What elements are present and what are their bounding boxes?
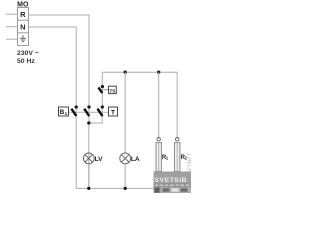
switch pole 1 blade — [71, 109, 76, 116]
mains connector MO box — [18, 8, 29, 46]
wire R line to vertical v2 — [29, 15, 90, 188]
node dot LV at bus — [87, 187, 90, 190]
switch pole 1 contact dot — [75, 105, 78, 108]
node dot R1 feed — [157, 71, 160, 74]
earth symbol in MO box — [20, 35, 26, 41]
heater feed wire — [102, 72, 177, 137]
switch pole 2 blade — [84, 109, 89, 116]
box T — [109, 107, 118, 116]
heater R1 terminal — [157, 138, 160, 141]
wire N line to vertical v1 — [29, 27, 77, 188]
thermostat switch TS blade — [98, 87, 102, 93]
node dot LA at bus — [124, 187, 127, 190]
switch pole 3 blade — [98, 109, 103, 116]
watermark logo box — [154, 172, 192, 194]
wire LV lamp to bus — [88, 164, 90, 189]
wire v3 vertical with junction bend to v2 — [89, 72, 103, 123]
mechanical link line B1 bank — [69, 111, 109, 113]
lamp LV — [83, 153, 94, 164]
heater R2 terminal — [176, 138, 179, 141]
bottom bus wire — [76, 187, 177, 189]
svg-text:SVETSIB: SVETSIB — [155, 177, 188, 184]
thermostat switch TS contact dot — [101, 85, 104, 88]
box B1 — [59, 107, 69, 116]
supply stub wire to N — [6, 26, 18, 28]
svg-text:T: T — [111, 109, 115, 116]
svg-text:LV: LV — [95, 156, 104, 163]
supply stub wire to earth — [6, 38, 18, 40]
wire R1 drop — [158, 72, 160, 137]
wire LA drop — [124, 72, 126, 153]
wire LA lamp to bus — [124, 164, 126, 189]
svg-text:50 Hz: 50 Hz — [17, 58, 35, 65]
supply stub wire to R — [6, 13, 18, 15]
svg-text:R: R — [20, 10, 26, 19]
heater R2 element — [175, 143, 180, 172]
wire TS box connector — [102, 89, 108, 91]
lamp LA — [120, 153, 131, 164]
svg-text:LA: LA — [131, 156, 140, 163]
box TS — [109, 86, 117, 93]
svg-text:N: N — [20, 23, 25, 32]
svg-text:230V ~: 230V ~ — [17, 50, 39, 57]
junction dot at v2/v3 — [87, 121, 90, 124]
node dot LA feed — [124, 71, 127, 74]
heater R1 element — [156, 143, 161, 172]
svg-text:TS: TS — [109, 88, 115, 93]
switch pole 2 contact dot — [87, 105, 90, 108]
switch pole 3 contact dot — [101, 105, 104, 108]
